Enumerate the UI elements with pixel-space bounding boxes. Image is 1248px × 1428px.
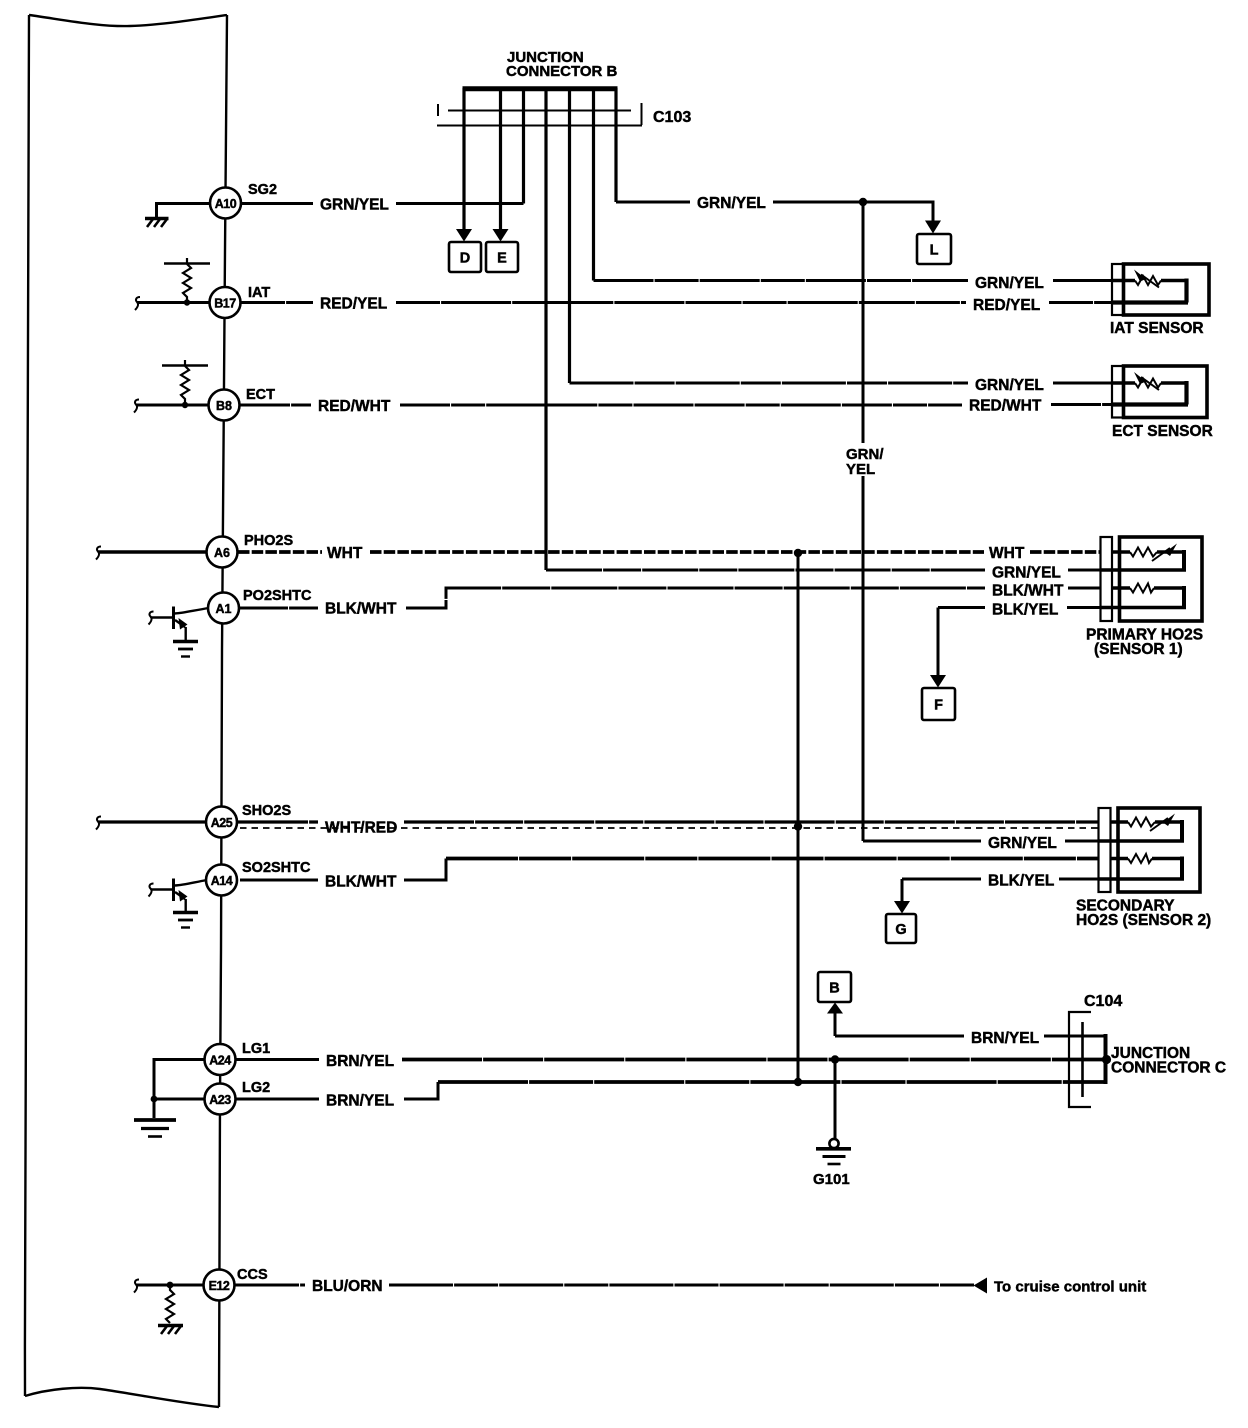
svg-text:B: B [829, 981, 839, 997]
secondary HO2S connector bar [1099, 808, 1111, 892]
pin 2 wire to E [499, 126, 502, 230]
chassis ground at A10 [145, 219, 169, 228]
arrow into B (pointing up) [827, 1003, 843, 1014]
svg-text:G101: G101 [813, 1171, 850, 1188]
svg-text:GRN/YEL: GRN/YEL [975, 275, 1044, 292]
primary heater right loop [1182, 586, 1186, 608]
svg-text:LG2: LG2 [242, 1080, 270, 1096]
junction node where WHT riser meets LG2 [794, 1078, 802, 1086]
svg-text:GRN/YEL: GRN/YEL [992, 565, 1061, 582]
connector box B [818, 972, 851, 1002]
IAT internal bottom lead [1112, 300, 1188, 304]
wire A23 left to common ground [154, 1098, 205, 1101]
svg-text:WHT: WHT [327, 545, 363, 562]
earth ground at A1 transistor [173, 642, 198, 657]
wire A25 left stub [98, 820, 207, 823]
pull-down resistor at E12 [166, 1285, 174, 1323]
primary heater return lead [1101, 606, 1186, 609]
svg-text:BRN/YEL: BRN/YEL [326, 1053, 394, 1070]
junction node at ground riser [151, 1096, 158, 1103]
ECT thermistor zigzag [1135, 379, 1161, 388]
svg-text:SO2SHTC: SO2SHTC [242, 860, 311, 876]
svg-text:IAT SENSOR: IAT SENSOR [1110, 320, 1204, 337]
pin 1 wire to D [462, 126, 465, 230]
connector box D [449, 242, 481, 272]
primary element zigzag [1130, 548, 1157, 557]
secondary element zigzag [1128, 818, 1155, 827]
secondary heater right loop [1180, 857, 1184, 880]
junction connector B label [506, 49, 618, 80]
svg-text:BLK/WHT: BLK/WHT [325, 874, 397, 891]
wire WHT/RED stripe dashed [240, 827, 1099, 829]
connector box L [917, 234, 951, 264]
svg-text:D: D [460, 251, 470, 267]
junction node at E12 resistor [167, 1282, 174, 1289]
secondary HO2S body [1118, 808, 1200, 892]
secondary sensing element top lead [1110, 820, 1181, 823]
svg-text:BLK/YEL: BLK/YEL [992, 602, 1058, 619]
junction node at B8 resistor [182, 402, 188, 408]
svg-text:GRN/YEL: GRN/YEL [988, 835, 1057, 852]
primary heater top lead [1112, 586, 1183, 589]
pin 6 wire down to IAT GRN/YEL [592, 126, 595, 281]
pin circle A24 [205, 1044, 236, 1075]
primary element return lead [1101, 568, 1186, 571]
pin circle A6 [207, 537, 238, 568]
svg-text:BLK/WHT: BLK/WHT [325, 601, 397, 618]
wire BRN/YEL LG2 to C104 [236, 1098, 319, 1101]
svg-text:GRN/YEL: GRN/YEL [697, 195, 766, 212]
wire GRN/YEL pin7 to L box [616, 202, 933, 221]
svg-text:A1: A1 [216, 602, 232, 616]
svg-text:C104: C104 [1084, 993, 1122, 1010]
pull-up resistor at B17 [164, 258, 210, 302]
svg-text:PHO2S: PHO2S [244, 533, 293, 549]
wire E12 left stub [136, 1284, 204, 1287]
pin circle A23 [205, 1084, 236, 1115]
ECT internal bottom lead [1112, 402, 1188, 406]
svg-text:HO2S (SENSOR 2): HO2S (SENSOR 2) [1076, 912, 1211, 929]
svg-text:C103: C103 [653, 109, 691, 126]
svg-text:To cruise control unit: To cruise control unit [994, 1279, 1146, 1296]
junction node on WHT line [794, 549, 802, 557]
wire GRN/YEL pin5 to ECT sensor [570, 382, 1114, 385]
connector box F [922, 688, 955, 720]
pull-up resistor at B8 [162, 360, 208, 404]
connector C103 pass-through lines [437, 103, 642, 126]
svg-text:GRN/YEL: GRN/YEL [320, 197, 389, 214]
svg-text:F: F [934, 698, 943, 714]
junction node on C104 bus [1102, 1055, 1111, 1064]
wire GRN/YEL pin6 to IAT sensor [594, 279, 1114, 282]
earth ground at A24/A23 [134, 1120, 176, 1137]
driver transistor at A1 [149, 607, 210, 641]
wire GRN/YEL corner into secondary HO2S [863, 840, 1099, 843]
svg-text:A23: A23 [209, 1093, 231, 1107]
wire BLK/YEL primary HO2S to F [938, 606, 1101, 609]
wire B8 left stub [136, 404, 210, 407]
ECT internal right loop [1184, 381, 1188, 405]
pin 3 wire down to A10 GRN/YEL [522, 126, 525, 204]
svg-text:E12: E12 [209, 1279, 230, 1293]
primary HO2S body [1120, 537, 1203, 621]
svg-text:A6: A6 [214, 546, 230, 560]
svg-text:CONNECTOR B: CONNECTOR B [506, 63, 618, 80]
svg-text:BLK/YEL: BLK/YEL [988, 873, 1054, 890]
ECT connector bar [1112, 366, 1124, 418]
cut hook at left end [134, 400, 139, 413]
pin circle A10 [210, 188, 241, 219]
bus pin stubs (bar to C103) [464, 88, 616, 126]
ECM/PCM torn band outline [25, 15, 227, 1407]
wire riser LG1 to G101 [834, 1060, 837, 1140]
IAT thermistor arrow [1141, 275, 1159, 288]
svg-text:RED/WHT: RED/WHT [318, 398, 391, 415]
wire down to G [901, 879, 904, 902]
secondary element return lead [1099, 839, 1184, 842]
svg-text:PO2SHTC: PO2SHTC [243, 588, 312, 604]
wire RED/YEL B17 to IAT sensor [241, 301, 1113, 304]
wire vertical from WHT junction down to LG2 [797, 553, 800, 1082]
junction node on WHT/RED stripe [794, 822, 802, 830]
svg-text:A24: A24 [209, 1054, 231, 1068]
primary heater zigzag [1130, 584, 1154, 593]
svg-text:(SENSOR 1): (SENSOR 1) [1094, 641, 1183, 658]
svg-text:IAT: IAT [248, 285, 270, 301]
arrow into G [894, 901, 910, 914]
svg-text:BRN/YEL: BRN/YEL [326, 1093, 394, 1110]
wire BLK/WHT A1 to primary HO2S [240, 588, 1101, 608]
pin circle A14 [206, 865, 237, 896]
wire A10 left to ground [157, 204, 211, 218]
svg-text:B8: B8 [216, 399, 232, 413]
svg-text:GRN/YEL: GRN/YEL [975, 377, 1044, 394]
svg-text:SG2: SG2 [248, 182, 277, 198]
wire A6 left stub [98, 550, 207, 554]
ECT thermistor arrow [1141, 377, 1159, 390]
wire BLU/ORN E12 to cruise control [235, 1284, 974, 1287]
cut hook at left end [96, 817, 101, 830]
wire BLK/YEL secondary HO2S to G [902, 878, 1099, 881]
wire A24 left to common ground [154, 1060, 205, 1119]
junction node on GRN/YEL row [859, 198, 867, 206]
wire B17 left stub [137, 301, 210, 304]
arrow into E [493, 229, 509, 242]
svg-text:E: E [497, 251, 507, 267]
arrow into D [456, 229, 472, 242]
IAT sensor body [1124, 264, 1210, 315]
chassis ground at E12 [158, 1326, 183, 1335]
C104 bracket [1069, 1012, 1091, 1107]
junction node LG1 to G101 riser [831, 1055, 839, 1063]
connector box E [486, 242, 518, 272]
IAT internal right loop [1184, 279, 1188, 303]
arrow into L [925, 221, 941, 234]
IAT thermistor zigzag [1135, 276, 1161, 285]
svg-text:G: G [895, 922, 906, 938]
primary HO2S connector bar [1101, 537, 1113, 621]
svg-text:LG1: LG1 [242, 1041, 270, 1057]
svg-text:YEL: YEL [846, 461, 875, 478]
secondary heater zigzag [1128, 854, 1152, 863]
arrow into F [930, 675, 946, 688]
wire GRN/YEL A10 to C103 pin 3 [241, 202, 524, 205]
pin circle A1 [208, 593, 239, 624]
secondary heater top lead [1110, 857, 1181, 860]
driver transistor at A14 [149, 879, 208, 912]
primary element arrow [1152, 548, 1170, 561]
svg-text:BLU/ORN: BLU/ORN [312, 1278, 383, 1295]
svg-text:WHT/RED: WHT/RED [325, 820, 397, 837]
wire WHT/RED A25 to secondary HO2S [238, 820, 1099, 823]
primary element right loop [1182, 550, 1186, 570]
svg-text:BLK/WHT: BLK/WHT [992, 583, 1064, 600]
svg-text:SHO2S: SHO2S [242, 803, 291, 819]
pin 7 wire down to GRN/YEL row [614, 126, 617, 202]
secondary element arrow [1150, 818, 1168, 831]
connector box G [886, 914, 916, 943]
ECT sensor body [1124, 366, 1208, 418]
svg-text:WHT: WHT [989, 545, 1025, 562]
ground G101 [813, 1139, 851, 1188]
earth ground at A14 transistor [173, 913, 198, 928]
svg-text:CCS: CCS [237, 1267, 268, 1283]
svg-text:CONNECTOR C: CONNECTOR C [1111, 1060, 1226, 1077]
wire BLK/WHT A14 to secondary HO2S [240, 859, 446, 881]
IAT internal top lead [1112, 279, 1187, 282]
C104 connector bar [1081, 1022, 1084, 1097]
svg-text:RED/YEL: RED/YEL [320, 296, 387, 313]
secondary element right loop [1180, 820, 1184, 841]
svg-text:RED/WHT: RED/WHT [969, 398, 1042, 415]
pin 4 wire down to primary HO2S GRN/YEL [544, 126, 547, 570]
wire GRN/YEL pin4 to primary HO2S [546, 569, 1101, 572]
wire down to F [937, 608, 940, 677]
svg-text:RED/YEL: RED/YEL [973, 297, 1040, 314]
svg-text:BRN/YEL: BRN/YEL [971, 1030, 1039, 1047]
junction node at B17 resistor [184, 299, 190, 305]
off-page arrow to cruise control unit [974, 1278, 988, 1294]
svg-text:A14: A14 [211, 874, 233, 888]
svg-text:A10: A10 [215, 197, 237, 211]
wire BRN/YEL from C104 up to B [835, 1013, 1105, 1036]
svg-text:B17: B17 [214, 297, 236, 311]
cut hook at left end [135, 297, 140, 310]
junction connector B bus bar [463, 86, 618, 91]
pin circle B8 [209, 390, 240, 421]
svg-text:A25: A25 [211, 816, 233, 830]
wire RED/WHT B8 to ECT sensor [240, 403, 1113, 407]
pin 5 wire down to ECT GRN/YEL [568, 126, 571, 383]
IAT connector bar [1112, 264, 1124, 315]
svg-text:L: L [930, 243, 939, 259]
svg-text:ECT SENSOR: ECT SENSOR [1112, 423, 1213, 440]
svg-text:ECT: ECT [246, 387, 275, 403]
cut hook at left end [134, 1280, 139, 1293]
wire BRN/YEL LG1 to C104 [236, 1058, 319, 1061]
pin circle A25 [206, 807, 237, 838]
primary sensing element top lead [1112, 550, 1183, 553]
cut hook at left end [96, 547, 101, 560]
ECT internal top lead [1112, 381, 1187, 384]
wire WHT A6 to primary HO2S [238, 550, 1101, 554]
wire GRN/YEL vertical to secondary HO2S [862, 202, 865, 841]
pin circle B17 [210, 287, 241, 318]
secondary heater return lead [1099, 877, 1184, 880]
C104 common bus bar [1104, 1034, 1108, 1084]
pin circle E12 [204, 1270, 235, 1301]
